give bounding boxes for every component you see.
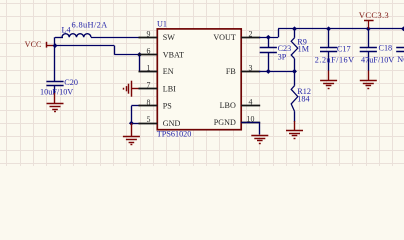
svg-text:1M: 1M xyxy=(298,45,310,54)
svg-text:6.8uH/2A: 6.8uH/2A xyxy=(72,20,108,29)
IC U1 TPS61020 body xyxy=(157,29,241,130)
ground under C18 xyxy=(360,71,377,89)
svg-text:VBAT: VBAT xyxy=(163,50,184,59)
svg-text:L4: L4 xyxy=(62,25,71,34)
wire VBAT net to pin 6 xyxy=(114,54,140,56)
wire VBAT to EN tie (vertical) xyxy=(139,55,141,72)
svg-text:C23: C23 xyxy=(278,44,292,53)
svg-text:TPS61020: TPS61020 xyxy=(157,130,192,139)
wire GND pin 5 stub xyxy=(131,123,140,125)
junction C18 top xyxy=(366,26,371,31)
svg-text:C20: C20 xyxy=(64,78,78,87)
svg-text:LBO: LBO xyxy=(220,101,236,110)
junction C23 top xyxy=(266,35,271,40)
svg-text:5: 5 xyxy=(147,115,151,124)
svg-text:C17: C17 xyxy=(337,45,351,54)
wire VOUT bus xyxy=(278,28,404,30)
svg-text:1: 1 xyxy=(147,63,151,72)
svg-text:GND: GND xyxy=(163,119,181,128)
ground under GND pin 5 xyxy=(123,123,140,144)
svg-text:2: 2 xyxy=(249,29,253,38)
power port VCC xyxy=(25,40,53,49)
pin 7 LBI xyxy=(139,81,177,94)
svg-text:NC: NC xyxy=(397,55,404,64)
pin 4 LBO xyxy=(220,97,261,110)
ground at PGND xyxy=(251,136,268,144)
svg-text:C18: C18 xyxy=(379,44,393,53)
svg-text:U1: U1 xyxy=(157,20,167,29)
wire EN tie to pin 1 xyxy=(140,71,158,73)
junction C23 bottom xyxy=(266,69,271,74)
pin 9 SW xyxy=(139,29,176,42)
svg-text:8: 8 xyxy=(147,98,151,107)
wire PGND down xyxy=(259,122,261,134)
svg-text:7: 7 xyxy=(147,81,151,90)
svg-text:EN: EN xyxy=(163,67,174,76)
junction edge capacitor top (clipped) xyxy=(401,26,404,31)
junction R9 top xyxy=(292,26,297,31)
svg-text:6: 6 xyxy=(147,47,151,56)
wire PS pin 8 stub xyxy=(131,105,140,107)
resistor R12 xyxy=(291,71,298,122)
svg-text:VOUT: VOUT xyxy=(213,33,236,42)
junction VBAT/EN tie xyxy=(137,52,142,57)
pin 2 VOUT xyxy=(213,29,260,42)
wire inductor to SW pin 9 xyxy=(91,37,140,39)
ground under R12 xyxy=(286,121,303,139)
capacitor at right edge (partial) xyxy=(396,48,404,52)
wire to inductor xyxy=(55,37,63,39)
wire VBAT net horizontal xyxy=(55,45,114,47)
junction PS/GND tie xyxy=(129,121,134,126)
svg-text:PGND: PGND xyxy=(214,118,236,127)
svg-text:PS: PS xyxy=(163,102,172,111)
svg-text:3P: 3P xyxy=(278,53,287,62)
svg-text:FB: FB xyxy=(226,67,236,76)
capacitor C17 xyxy=(320,29,337,71)
wire VCC down to C20 xyxy=(54,46,56,81)
svg-text:4: 4 xyxy=(249,97,253,106)
pin 1 EN xyxy=(139,63,174,76)
ground under C20 xyxy=(47,93,64,112)
wire PGND pin 10 right xyxy=(241,122,260,124)
pin 3 FB xyxy=(226,63,260,76)
pin 6 VBAT xyxy=(139,47,184,60)
wire step up xyxy=(278,29,280,38)
pin 10 PGND xyxy=(214,114,260,127)
svg-text:9: 9 xyxy=(147,29,151,38)
wire VCC junction to inductor (vertical) xyxy=(54,37,56,45)
svg-text:47uF/10V: 47uF/10V xyxy=(361,55,394,64)
power port VCC3.3 xyxy=(359,10,389,29)
svg-text:10uF/10V: 10uF/10V xyxy=(40,88,73,97)
junction FB node xyxy=(292,69,297,74)
resistor R9 xyxy=(291,29,298,72)
svg-text:VCC3.3: VCC3.3 xyxy=(359,10,389,20)
svg-text:LBI: LBI xyxy=(163,85,176,94)
svg-text:SW: SW xyxy=(163,33,176,42)
junction at VCC node xyxy=(53,43,58,48)
pin 8 PS xyxy=(139,98,172,111)
capacitor C20 xyxy=(46,82,63,95)
capacitor C18 xyxy=(360,29,377,71)
ground at LBI pin 7 (sideways) xyxy=(124,81,141,97)
svg-text:VCC: VCC xyxy=(25,40,42,49)
svg-text:3: 3 xyxy=(249,63,253,72)
wire FB pin 3 to divider xyxy=(259,71,295,73)
capacitor C23 xyxy=(260,37,277,71)
wire VOUT pin 2 to step xyxy=(259,37,278,39)
ground under C17 xyxy=(320,71,337,89)
wire VBAT net jog down xyxy=(114,46,116,55)
pin 5 GND xyxy=(139,115,181,128)
svg-text:184: 184 xyxy=(297,94,309,103)
svg-text:2.2uF/16V: 2.2uF/16V xyxy=(315,56,355,65)
inductor L4 xyxy=(62,34,91,38)
wire PS to GND tie (vertical) xyxy=(131,106,133,123)
junction C17 top xyxy=(326,26,331,31)
